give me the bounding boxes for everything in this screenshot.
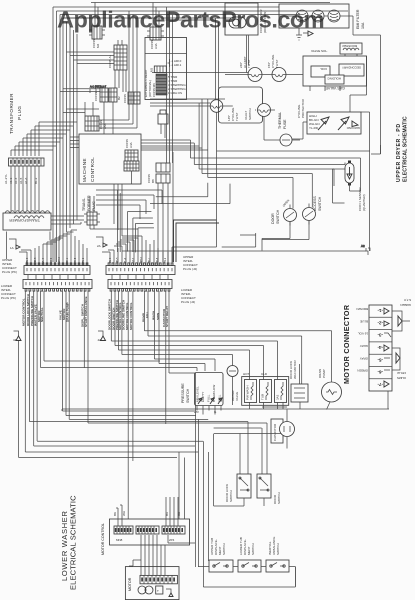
label external credit optional bbox=[144, 69, 156, 97]
svg-text:-3-: -3- bbox=[377, 333, 383, 338]
motor box bbox=[125, 567, 179, 600]
wire horizontal bundle to switches bbox=[191, 99, 371, 209]
label door lock switch bbox=[225, 484, 233, 502]
ground symbol below EMI bbox=[296, 28, 302, 40]
connector transformer plug strip bbox=[9, 158, 45, 166]
svg-text:1 GRA OS: 1 GRA OS bbox=[168, 91, 182, 95]
wire right title edge bbox=[371, 145, 381, 154]
svg-text:A5A: A5A bbox=[103, 123, 107, 129]
svg-text:ELECTRICAL SCHEMATIC: ELECTRICAL SCHEMATIC bbox=[403, 116, 409, 182]
svg-text:3A: 3A bbox=[13, 338, 17, 342]
thermistor circle bbox=[227, 366, 239, 406]
svg-text:MIN LEVEL: MIN LEVEL bbox=[196, 386, 200, 402]
svg-text:6-7,8: 6-7,8 bbox=[404, 298, 411, 302]
label pin numbers above strips bbox=[27, 256, 167, 263]
svg-text:MOTOR CONTROL: MOTOR CONTROL bbox=[129, 302, 133, 330]
svg-text:DOOR: DOOR bbox=[271, 213, 275, 224]
connector upper inter-connect strip 2 bbox=[106, 263, 175, 275]
svg-text:CONN A1: CONN A1 bbox=[108, 54, 112, 68]
svg-text:BK: BK bbox=[113, 512, 117, 516]
svg-text:SWITCH: SWITCH bbox=[248, 108, 252, 120]
wire lower step horizontals bbox=[19, 341, 267, 519]
label drain pump bbox=[318, 369, 326, 378]
wire top-left feeder horizontals bbox=[60, 18, 114, 113]
wire right loop enclosure bbox=[190, 545, 295, 587]
svg-text:SWITCH: SWITCH bbox=[276, 209, 280, 224]
transformer box bbox=[3, 213, 51, 230]
svg-text:A4A: A4A bbox=[154, 43, 158, 49]
svg-text:-5-: -5- bbox=[377, 357, 383, 362]
svg-text:10A: 10A bbox=[361, 22, 365, 29]
wire transformer primary leads bbox=[11, 122, 77, 211]
booster coil box bbox=[310, 43, 362, 91]
svg-text:CONTROL: CONTROL bbox=[90, 157, 95, 182]
svg-text:SWITCH: SWITCH bbox=[318, 196, 322, 211]
svg-text:GROUND: GROUND bbox=[346, 126, 360, 130]
svg-text:MOTOR: MOTOR bbox=[128, 577, 132, 591]
thermostat 156 cycling bbox=[267, 54, 286, 82]
connector arrow 1A bbox=[9, 239, 20, 250]
svg-text:ELECTRICAL SCHEMATIC: ELECTRICAL SCHEMATIC bbox=[69, 495, 78, 590]
svg-text:TUB: TUB bbox=[261, 394, 265, 400]
door switch circle bbox=[282, 199, 297, 226]
connector CONN A5A bbox=[85, 116, 107, 131]
svg-text:M4: M4 bbox=[96, 44, 100, 48]
svg-text:FUSE: FUSE bbox=[283, 119, 287, 129]
door switch label bbox=[271, 209, 280, 224]
svg-text:16 VOL: 16 VOL bbox=[357, 332, 368, 336]
svg-text:SWITCH: SWITCH bbox=[222, 543, 226, 555]
svg-text:BOOSTER: BOOSTER bbox=[341, 44, 357, 48]
wire transformer secondary to plug bbox=[51, 216, 84, 224]
label pressure switch bbox=[181, 383, 190, 403]
svg-text:VALVE: VALVE bbox=[235, 392, 239, 401]
svg-text:PLUG: PLUG bbox=[17, 105, 22, 120]
label wire names below strip 3 bbox=[22, 293, 89, 327]
svg-text:WH-2: WH-2 bbox=[59, 256, 61, 263]
svg-text:BLUE: BLUE bbox=[360, 320, 368, 324]
wire coin sensor loop bbox=[333, 112, 371, 251]
label thermal fuse bbox=[278, 112, 287, 129]
svg-text:SWITCH: SWITCH bbox=[276, 543, 280, 555]
svg-text:TN-9: TN-9 bbox=[83, 257, 85, 263]
label door switch bbox=[273, 492, 281, 504]
svg-text:SPIN: SPIN bbox=[156, 312, 160, 320]
svg-text:SWITCH: SWITCH bbox=[186, 388, 190, 403]
svg-text:GY-3: GY-3 bbox=[51, 257, 53, 263]
svg-text:YL-4: YL-4 bbox=[43, 257, 45, 263]
displacement switch boxes row bbox=[198, 560, 295, 587]
EMI filter box bbox=[279, 4, 365, 29]
svg-text:COIL: COIL bbox=[320, 67, 327, 71]
svg-text:PLUG (J4): PLUG (J4) bbox=[181, 300, 195, 304]
label inertial unbalance switch bbox=[268, 537, 280, 555]
svg-text:PW WASH: PW WASH bbox=[246, 385, 250, 400]
svg-text:FILL: FILL bbox=[145, 311, 149, 318]
svg-text:3A2: 3A2 bbox=[276, 394, 280, 400]
connector CONN M8 dark block bbox=[156, 74, 186, 95]
thermostat 240 hi-limit bbox=[239, 56, 262, 81]
svg-text:A1-5: A1-5 bbox=[19, 177, 23, 184]
svg-text:TRANSFORMER: TRANSFORMER bbox=[9, 218, 40, 222]
svg-text:-7-: -7- bbox=[377, 382, 383, 387]
svg-text:AppliancePartsPros.com: AppliancePartsPros.com bbox=[57, 7, 324, 33]
svg-text:THERMAL: THERMAL bbox=[278, 112, 282, 129]
label upper inter-connect plug pk bbox=[2, 258, 17, 274]
drain pump circle bbox=[322, 382, 342, 410]
svg-text:WAX MOTOR: WAX MOTOR bbox=[293, 360, 297, 380]
svg-text:-2-: -2- bbox=[377, 321, 383, 326]
label trans-former plug (center) bbox=[82, 195, 96, 211]
wire door/access return bbox=[222, 221, 309, 251]
svg-text:(QUARTER): (QUARTER) bbox=[362, 194, 366, 211]
thermal fuse circle bbox=[264, 117, 300, 146]
machine control box bbox=[79, 134, 141, 184]
connector arrow top right bbox=[303, 31, 313, 36]
connector arrow 2A bbox=[96, 237, 107, 248]
svg-text:B2: B2 bbox=[117, 96, 121, 100]
wire EMI output to right bus bbox=[349, 16, 381, 154]
svg-text:CAPACITOR: CAPACITOR bbox=[273, 423, 277, 441]
svg-text:CONN M6: CONN M6 bbox=[152, 83, 156, 97]
svg-text:GRAY: GRAY bbox=[360, 356, 368, 360]
svg-text:START UNBALANCE: START UNBALANCE bbox=[84, 296, 88, 327]
svg-text:SWITCH: SWITCH bbox=[229, 490, 233, 502]
svg-text:BROWN: BROWN bbox=[357, 307, 369, 311]
wire heavy corner bbox=[174, 220, 220, 262]
svg-text:VALVE SOL.: VALVE SOL. bbox=[311, 49, 328, 53]
svg-text:1A: 1A bbox=[10, 246, 14, 250]
wire motor control entries bbox=[116, 497, 178, 526]
box external credit enclosure bbox=[145, 38, 187, 100]
svg-text:TH'ST: TH'ST bbox=[247, 59, 251, 68]
svg-text:CONN: CONN bbox=[94, 92, 98, 101]
wire long A2 line bbox=[122, 244, 368, 255]
label lower tub displacement switch bbox=[239, 537, 255, 555]
svg-text:SWITCH: SWITCH bbox=[277, 492, 281, 504]
access switch label bbox=[313, 196, 322, 211]
transformer winding bumps bbox=[5, 211, 50, 213]
svg-text:TH'ST: TH'ST bbox=[235, 112, 239, 121]
wire top-left supply bundle horizontals bbox=[53, 3, 348, 19]
svg-text:2A: 2A bbox=[97, 244, 101, 248]
label lower inter-connect plug pk-gn bbox=[1, 284, 16, 300]
svg-text:155-HI: 155-HI bbox=[397, 371, 406, 375]
wire verticals to A5A bbox=[99, 11, 137, 128]
connector CONN M4 bbox=[89, 3, 105, 49]
connector CONN A4A pin block bbox=[124, 150, 139, 171]
thermostat 140 cycling circle bbox=[150, 100, 233, 113]
connector CONN M3 sensor bbox=[150, 66, 167, 73]
connector lower inter-connect strip 4 bbox=[108, 280, 172, 292]
box 145 cycling + vault switch bbox=[219, 87, 263, 123]
title upper dryer schematic bbox=[396, 116, 409, 182]
wire machine control leads bbox=[70, 102, 132, 236]
motor control box bbox=[110, 519, 190, 545]
svg-text:TRANS-: TRANS- bbox=[82, 197, 86, 211]
connector arrow 4A bbox=[98, 331, 106, 342]
connector arrow 3A bbox=[13, 331, 21, 342]
svg-text:-1-: -1- bbox=[377, 308, 383, 313]
wire left bus verticals bbox=[53, 7, 77, 262]
svg-text:A4A: A4A bbox=[129, 142, 133, 148]
svg-text:A1-6: A1-6 bbox=[24, 177, 28, 184]
wire washer distribution horizontals bbox=[41, 331, 332, 411]
svg-text:FORMER: FORMER bbox=[87, 195, 91, 211]
pressure switch contacts bbox=[194, 373, 223, 415]
water valve box bbox=[242, 372, 289, 405]
svg-text:WH: WH bbox=[122, 511, 126, 516]
wire center verticals bbox=[158, 7, 216, 262]
wire strip1-strip3 links bbox=[28, 275, 168, 279]
label lower inter-connect plug j4 bbox=[181, 288, 196, 304]
label motor control wire tags bbox=[113, 511, 181, 516]
svg-text:CONN: CONN bbox=[123, 94, 127, 103]
svg-text:B1-2: B1-2 bbox=[34, 177, 38, 184]
svg-text:B8: B8 bbox=[151, 179, 155, 183]
label motor connector pins bbox=[357, 307, 369, 373]
svg-text:OHMS: OHMS bbox=[397, 376, 406, 380]
title lower washer schematic bbox=[60, 495, 78, 590]
wire door switch returns bbox=[214, 434, 264, 506]
coin 1 sensor quarter bbox=[345, 161, 366, 212]
svg-text:PLUG (PK): PLUG (PK) bbox=[2, 270, 17, 274]
svg-text:T: T bbox=[157, 589, 159, 593]
capacitor circle bbox=[262, 407, 295, 437]
svg-text:PUMP: PUMP bbox=[322, 369, 326, 378]
access switch circle bbox=[303, 204, 316, 225]
connector CONN B8 bbox=[147, 163, 170, 183]
vault switch circle bbox=[255, 104, 275, 117]
wire bottom rail components bbox=[62, 391, 389, 449]
svg-text:A1-2YL: A1-2YL bbox=[4, 174, 8, 184]
connector CONN B2 pair bbox=[94, 88, 121, 102]
svg-text:MACHINE: MACHINE bbox=[82, 158, 87, 182]
svg-text:SECONDARY: SECONDARY bbox=[342, 66, 361, 70]
svg-text:YL-RD: YL-RD bbox=[309, 126, 319, 130]
svg-text:BK-1: BK-1 bbox=[67, 257, 69, 263]
wire gas valve to ignitor bbox=[292, 56, 370, 139]
label capacitor bbox=[271, 419, 283, 443]
wire fan-in above strip 1 bbox=[19, 230, 87, 265]
svg-text:PRESSURE: PRESSURE bbox=[181, 383, 185, 403]
label upper inter-connect plug j2 bbox=[183, 255, 198, 271]
door switch box bbox=[257, 474, 271, 498]
svg-text:-4-: -4- bbox=[377, 345, 383, 350]
heater ignitor box bbox=[307, 112, 361, 134]
wire thermostat rail bbox=[225, 74, 303, 76]
svg-text:-6-: -6- bbox=[377, 370, 383, 375]
svg-text:GAS VALVE: GAS VALVE bbox=[325, 86, 345, 90]
wire bundle staircase feeds bbox=[141, 140, 230, 262]
label transformer plug wire names bbox=[4, 174, 38, 184]
svg-text:PLUG (J2): PLUG (J2) bbox=[183, 267, 197, 271]
svg-text:GRAY: GRAY bbox=[360, 344, 368, 348]
svg-text:GREEN: GREEN bbox=[357, 369, 368, 373]
wire fan-in above strip 2 bbox=[102, 236, 173, 265]
wire center horizontals to thermostat bbox=[150, 18, 249, 103]
wire left-half lower horizontals bbox=[96, 190, 162, 252]
connector trans-former plug bbox=[84, 196, 138, 229]
svg-text:PK-8: PK-8 bbox=[75, 257, 77, 263]
svg-text:MOTOR CONTROL: MOTOR CONTROL bbox=[101, 523, 105, 555]
connector small A1 box bbox=[158, 110, 168, 138]
gas valve outer box bbox=[303, 56, 367, 90]
wire to door switches verticals bbox=[195, 411, 281, 587]
svg-text:M3: M3 bbox=[150, 68, 154, 72]
label transformer plug (left) bbox=[9, 93, 22, 134]
svg-text:UPPER DRYER - PD: UPPER DRYER - PD bbox=[396, 123, 402, 182]
label pin list bracket bbox=[168, 59, 182, 67]
motor connector table bbox=[369, 305, 392, 391]
wire washer center verticals bbox=[111, 291, 169, 519]
svg-text:SWITCH: SWITCH bbox=[251, 543, 255, 555]
svg-text:BU-6: BU-6 bbox=[27, 257, 29, 263]
svg-text:WASH: WASH bbox=[151, 310, 155, 320]
connector lower inter-connect strip 3 bbox=[23, 280, 92, 292]
door lock switch box bbox=[237, 474, 251, 498]
coin sensor dollar box bbox=[225, 3, 267, 73]
connector upper inter-connect strip 1 bbox=[24, 263, 90, 275]
connector stepper block bbox=[123, 92, 140, 104]
svg-text:ACCESS: ACCESS bbox=[313, 196, 317, 211]
svg-text:4A: 4A bbox=[98, 338, 102, 342]
svg-text:BU: BU bbox=[165, 512, 169, 516]
label heating element bbox=[297, 98, 305, 118]
svg-text:HOLDING: HOLDING bbox=[327, 77, 341, 81]
svg-text:TRANSFORMER: TRANSFORMER bbox=[9, 93, 14, 134]
svg-text:GREEN: GREEN bbox=[400, 303, 411, 307]
svg-text:TH'ST: TH'ST bbox=[275, 59, 279, 68]
svg-text:RD-5: RD-5 bbox=[35, 257, 37, 263]
label door lock wax motor bbox=[289, 360, 297, 380]
wire motor control to motor bbox=[129, 535, 195, 575]
svg-text:EMI FILTER: EMI FILTER bbox=[356, 9, 360, 29]
svg-text:MOTOR CONNECTOR: MOTOR CONNECTOR bbox=[342, 304, 351, 384]
wire washer left verticals bbox=[25, 291, 88, 452]
motor connector right diodes bbox=[392, 298, 411, 380]
svg-text:MN8: MN8 bbox=[116, 538, 123, 542]
label wire names below strip 4 bbox=[108, 298, 170, 330]
svg-text:HOT: HOT bbox=[243, 372, 250, 376]
svg-text:A1-4: A1-4 bbox=[14, 177, 18, 184]
svg-text:FULL: FULL bbox=[207, 394, 211, 402]
connector CONN A4A top bbox=[147, 3, 164, 50]
connector machine-control 2-col pin block bbox=[108, 40, 127, 92]
svg-text:PROTECTOR: PROTECTOR bbox=[301, 98, 305, 118]
svg-text:A2: A2 bbox=[361, 244, 365, 248]
svg-text:TN-9: TN-9 bbox=[165, 257, 167, 263]
label upper tub displacement switch bbox=[210, 538, 226, 555]
svg-text:2P4: 2P4 bbox=[169, 538, 175, 542]
svg-text:PLUG (PK): PLUG (PK) bbox=[1, 296, 16, 300]
svg-text:CLD: CLD bbox=[261, 372, 268, 376]
wax motor box bbox=[291, 364, 308, 402]
